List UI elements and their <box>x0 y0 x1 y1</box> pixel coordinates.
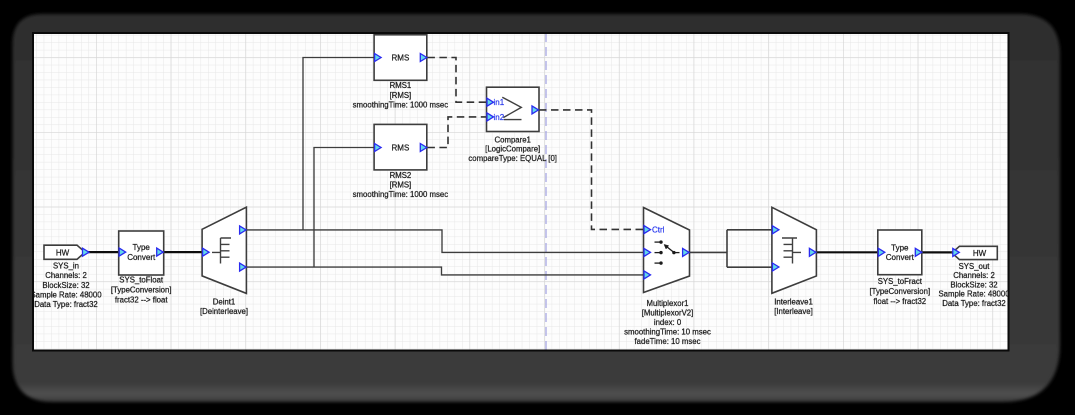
label RMS1 <box>353 81 449 109</box>
svg-text:Convert: Convert <box>886 253 915 262</box>
label SYS_toFract <box>869 277 930 306</box>
wire Deint1 out2 to Multiplexor1 in2 <box>246 267 643 275</box>
label Compare1 <box>468 135 557 163</box>
svg-text:Data Type: fract32: Data Type: fract32 <box>942 299 1006 308</box>
svg-text:RMS: RMS <box>392 53 410 62</box>
dashed wire Compare1 to Multiplexor1 Ctrl <box>539 110 644 229</box>
svg-text:in1: in1 <box>494 98 505 107</box>
label Deint1 <box>200 298 248 316</box>
svg-text:Convert: Convert <box>127 253 156 262</box>
pin Interleave1 in2 <box>772 263 779 271</box>
svg-text:SYS_toFract: SYS_toFract <box>878 277 923 286</box>
block SYS_in (HW input) <box>44 245 85 259</box>
dashed wire RMS1 to Compare1 in1 <box>427 58 486 103</box>
wire Deint1 out1 to Multiplexor1 in1 <box>246 230 643 253</box>
icon compare chevron <box>502 97 521 119</box>
block RMS2 <box>374 124 427 169</box>
svg-text:Type: Type <box>133 243 151 252</box>
svg-text:[TypeConversion]: [TypeConversion] <box>111 286 172 295</box>
svg-text:fadeTime: 10 msec: fadeTime: 10 msec <box>634 337 700 346</box>
svg-text:[Deinterleave]: [Deinterleave] <box>200 307 248 316</box>
wire Interleave1 to SYS_toFract <box>816 251 878 253</box>
svg-text:Deint1: Deint1 <box>213 298 236 307</box>
svg-text:SYS_in: SYS_in <box>53 262 79 271</box>
svg-text:Data Type: fract32: Data Type: fract32 <box>34 300 98 309</box>
svg-text:[Interleave]: [Interleave] <box>774 307 813 316</box>
svg-text:fract32 --> float: fract32 --> float <box>115 296 168 305</box>
label SYS_out <box>938 262 1010 308</box>
svg-text:RMS2: RMS2 <box>390 171 412 180</box>
dashed wire RMS2 to Compare1 in2 <box>427 117 486 148</box>
svg-text:[RMS]: [RMS] <box>390 181 412 190</box>
svg-text:smoothingTime: 1000 msec: smoothingTime: 1000 msec <box>353 190 449 199</box>
pin RMS1 input <box>375 54 382 62</box>
block Compare1 (LogicCompare) <box>487 87 540 131</box>
block SYS_toFract (TypeConversion) <box>878 230 922 275</box>
pin Deint1 output 1 <box>240 226 247 234</box>
svg-text:in2: in2 <box>494 113 505 122</box>
svg-text:Type: Type <box>891 243 909 252</box>
svg-text:Multiplexor1: Multiplexor1 <box>646 299 688 308</box>
wire branch to RMS2 <box>314 148 375 268</box>
icon multiplexor switch <box>655 240 680 264</box>
svg-text:compareType: EQUAL [0]: compareType: EQUAL [0] <box>468 154 557 163</box>
pin SYS_in output <box>83 248 90 256</box>
block Multiplexor1 (MultiplexorV2) <box>644 208 690 293</box>
svg-text:RMS1: RMS1 <box>390 81 412 90</box>
icon interleave comb <box>782 238 801 264</box>
svg-text:Interleave1: Interleave1 <box>774 298 813 307</box>
label RMS2 <box>353 171 449 199</box>
wire SYS_toFract to SYS_out <box>922 251 953 253</box>
block SYS_toFloat (TypeConversion) <box>119 231 164 275</box>
block RMS1 <box>374 35 427 81</box>
block Deint1 (Deinterleave) <box>202 207 246 293</box>
pin SYS_toFract input <box>878 248 885 256</box>
svg-text:BlockSize: 32: BlockSize: 32 <box>42 281 89 290</box>
label SYS_in <box>30 262 102 309</box>
svg-text:Sample Rate: 48000: Sample Rate: 48000 <box>30 290 102 299</box>
svg-text:Sample Rate: 48000: Sample Rate: 48000 <box>938 290 1010 299</box>
svg-text:[TypeConversion]: [TypeConversion] <box>869 287 930 296</box>
pin SYS_toFloat input <box>119 248 126 256</box>
icon deinterleave comb <box>212 238 231 264</box>
block Interleave1 <box>772 207 817 293</box>
svg-text:HW: HW <box>56 248 70 257</box>
svg-text:index: 0: index: 0 <box>654 318 682 327</box>
pin Interleave1 in1 <box>772 226 779 234</box>
pin SYS_toFloat output <box>157 248 164 256</box>
svg-text:smoothingTime: 10 msec: smoothingTime: 10 msec <box>624 328 711 337</box>
pin Multiplexor1 output <box>683 248 690 256</box>
pin SYS_out input <box>953 248 960 256</box>
pin Deint1 output 2 <box>240 263 247 271</box>
wire SYS_in to SYS_toFloat <box>88 251 120 253</box>
page boundary dashed line <box>545 33 547 351</box>
pin Interleave1 output <box>809 248 816 256</box>
pin Multiplexor1 Ctrl <box>644 226 651 234</box>
wire SYS_toFloat to Deint1 <box>164 251 203 253</box>
pin Multiplexor1 in1 <box>644 248 651 256</box>
pin Compare1 in1 <box>487 98 494 106</box>
svg-text:SYS_toFloat: SYS_toFloat <box>119 276 164 285</box>
pin RMS2 output <box>420 144 427 152</box>
pin SYS_toFract output <box>915 248 922 256</box>
wire Multiplexor1 out to Interleave1 inputs <box>690 251 728 253</box>
label Interleave1 <box>774 298 813 316</box>
pin RMS2 input <box>375 144 382 152</box>
svg-text:HW: HW <box>973 249 987 258</box>
svg-text:float --> fract32: float --> fract32 <box>873 297 926 306</box>
block SYS_out (HW output) <box>952 246 997 259</box>
pin Deint1 input <box>203 248 210 256</box>
svg-text:smoothingTime: 1000 msec: smoothingTime: 1000 msec <box>353 100 449 109</box>
svg-text:Channels: 2: Channels: 2 <box>45 271 87 280</box>
label SYS_toFloat <box>111 276 172 305</box>
pin Compare1 in2 <box>487 113 494 121</box>
label Multiplexor1 <box>624 299 711 346</box>
svg-text:BlockSize: 32: BlockSize: 32 <box>950 280 997 289</box>
svg-text:Channels: 2: Channels: 2 <box>953 271 995 280</box>
svg-text:[MultiplexorV2]: [MultiplexorV2] <box>642 309 694 318</box>
svg-text:Ctrl: Ctrl <box>652 226 665 235</box>
svg-text:RMS: RMS <box>392 143 410 152</box>
svg-text:SYS_out: SYS_out <box>959 262 991 271</box>
canvas border <box>33 33 1009 351</box>
white canvas <box>32 32 1010 352</box>
wire branch to RMS1 <box>303 58 375 230</box>
pin Compare1 output <box>532 106 539 114</box>
pin RMS1 output <box>420 54 427 62</box>
svg-text:[RMS]: [RMS] <box>390 91 412 100</box>
pin Multiplexor1 in2 <box>644 271 651 279</box>
svg-text:Compare1: Compare1 <box>494 135 530 144</box>
svg-text:[LogicCompare]: [LogicCompare] <box>485 145 540 154</box>
